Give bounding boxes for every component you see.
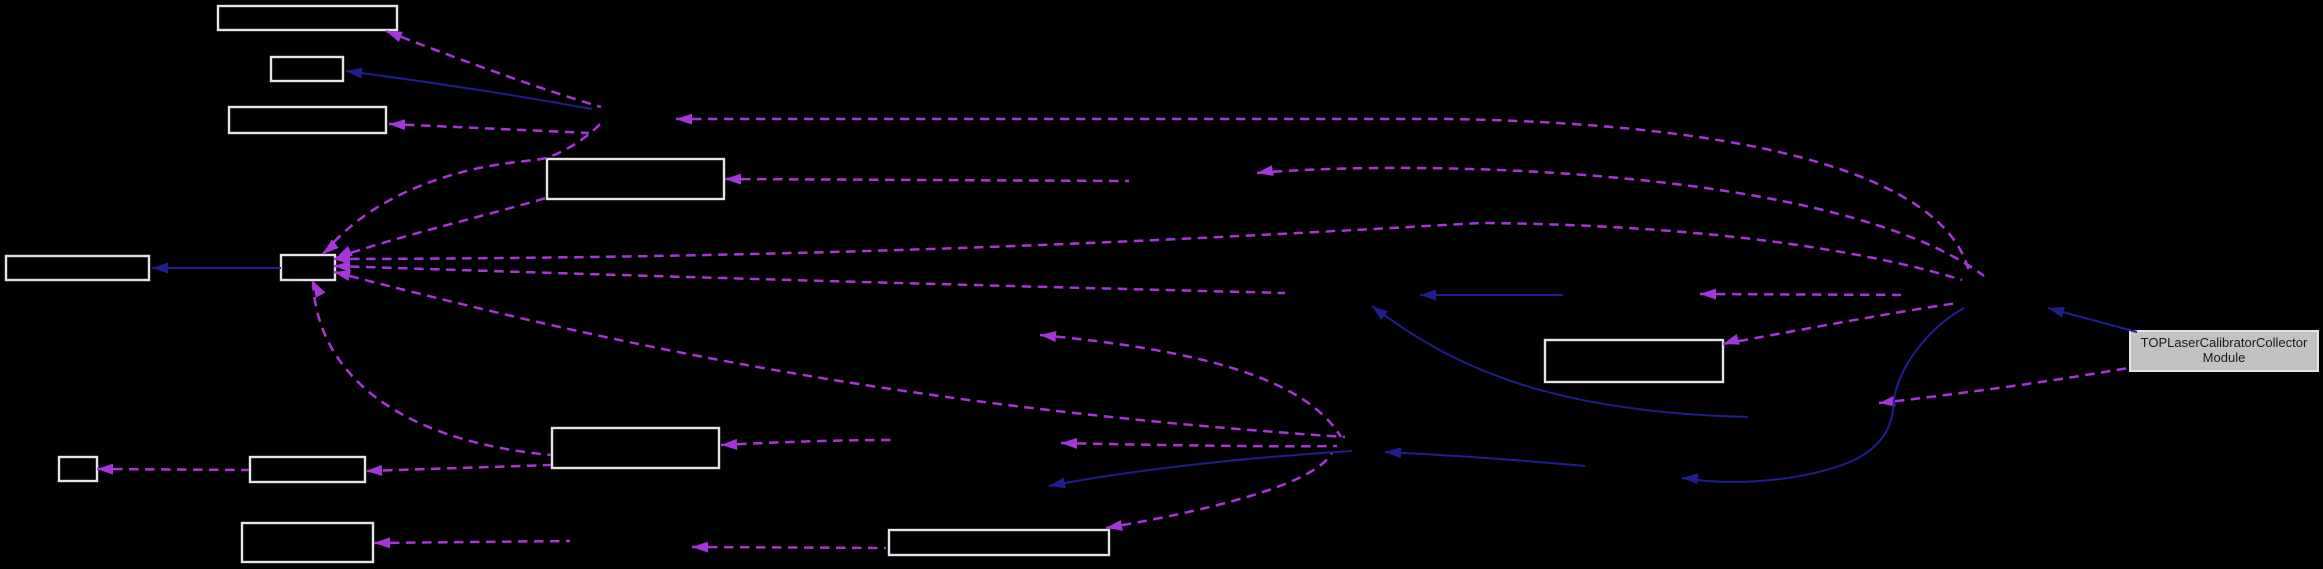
edge label to box8 dashed [721,439,895,451]
edge module to N3 dashed [1878,368,2128,408]
edge label to box4 dashed [725,174,1129,185]
edge hubN1 to box3 dashed [389,119,589,133]
edge box8 to box6 dashed curve [308,278,551,455]
edge hubN2 to N6 blue big curve [1682,308,1964,484]
edge N6 to hubN5 blue [1385,447,1585,466]
edge hubN2 to box7 dashed [1721,303,1958,349]
edge box4 corner to box6 dashed [334,198,546,263]
edge box12 to label dashed [692,542,886,553]
node box8 [552,428,719,468]
edge hubN5 to box12 dashed [1105,452,1332,533]
node box1 top-left [218,6,397,30]
edge label to box6 mid dashed [334,261,1285,293]
node box7 [1545,340,1723,382]
node box3 [229,107,386,133]
edge box8 to box10 dashed [366,465,551,477]
edge hubN5 to floating label dashed [1039,330,1341,437]
node box6 hub [281,255,335,280]
edge hubN5 to box6 dashed [333,267,1345,437]
edge hubN1 to box2 blue [345,66,592,109]
edge box6 to box5 blue [152,263,281,274]
node box5 [6,256,149,280]
edge hubN2 label segment dashed [1700,289,1901,300]
edge to N7 blue short [1420,290,1563,301]
edge hubN5 to label dashed [1061,438,1337,449]
node box9 [59,457,97,481]
edge box10 to box9 dashed [97,464,249,475]
edge hubN2 to label box4 dashed [1256,165,1984,276]
node box11 [242,523,373,562]
edge module to hubN2 blue [2047,303,2137,332]
edge longtop to hubN1 dashed [676,114,1969,272]
edge hubN1 to box1 dashed [384,26,601,107]
edge hubN1 to box6 dashed curve [319,124,600,258]
svg-text:Module: Module [2203,350,2246,365]
edge hubN2 to box6 upper dashed [334,223,1962,280]
node box2 [271,57,343,81]
node box12 [889,530,1109,555]
edge label to box11 dashed [374,537,570,548]
node box10 [250,457,365,482]
node TOPLaserCalibratorCollectorModule [2130,331,2318,371]
edge hubN5 to label blue [1048,451,1352,491]
svg-text:TOPLaserCalibratorCollector: TOPLaserCalibratorCollector [2141,335,2308,350]
edge N6 to N7 blue curve [1369,302,1748,417]
node box4 [547,159,724,199]
